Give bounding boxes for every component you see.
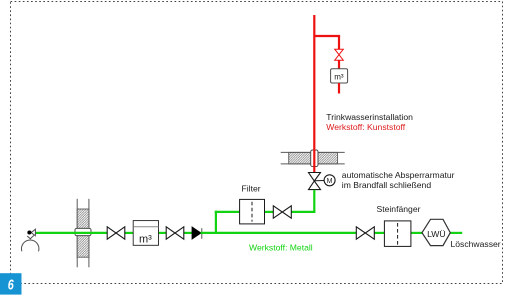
wire: riser to filter: [215, 211, 240, 213]
water meter m3 (branch): [331, 69, 348, 83]
svg-text:LWÜ: LWÜ: [427, 229, 445, 239]
check valve: [192, 227, 202, 239]
valve (after meter): [166, 227, 184, 239]
wire: red branch vertical: [338, 36, 340, 50]
ceiling pipe sleeve: [311, 150, 318, 167]
wire: green drop from motor valve: [313, 190, 315, 213]
svg-text:Löschwasser: Löschwasser: [451, 239, 501, 249]
wire: green valve to check valve: [184, 232, 193, 234]
wall pipe sleeve: [75, 228, 91, 235]
svg-text:Trinkwasserinstallation: Trinkwasserinstallation: [326, 112, 413, 122]
valve (house shutoff): [107, 227, 125, 239]
water meter m3 (main): [133, 221, 158, 246]
svg-text:Werkstoff: Metall: Werkstoff: Metall: [249, 242, 313, 252]
supply connection symbol: [21, 229, 38, 251]
page number tab 6: [0, 273, 22, 294]
valve (red, branch): [335, 49, 344, 60]
wire: red valve to meter: [338, 60, 340, 69]
svg-text:Steinfänger: Steinfänger: [377, 204, 421, 214]
filter F: [240, 199, 265, 224]
svg-text:Werkstoff: Kunststoff: Werkstoff: Kunststoff: [326, 122, 405, 132]
wire: green LWU to end: [450, 232, 462, 234]
wire: green riser: [215, 211, 217, 233]
valve (after filter): [273, 206, 291, 218]
wire: filter to valve: [264, 211, 273, 213]
wire: green long segment: [201, 232, 357, 234]
wire: green filter branch right: [291, 211, 315, 213]
LWU heat exchanger: [422, 219, 450, 245]
valve with motor (automatische Absperrarmatur): [309, 173, 336, 190]
Steinfaenger (dirt trap): [384, 221, 411, 247]
wire: red branch horizontal: [314, 35, 340, 37]
svg-text:im Brandfall schließend: im Brandfall schließend: [342, 180, 432, 190]
ceiling slab hatch: [281, 152, 345, 164]
wire: green meter to valve: [158, 232, 167, 234]
svg-text:m³: m³: [334, 72, 344, 81]
svg-text:automatische Absperrarmatur: automatische Absperrarmatur: [342, 170, 455, 180]
wire: green main line segment 1: [35, 232, 108, 234]
wall hatch (left): [77, 199, 89, 267]
valve (before Steinfaenger): [356, 227, 374, 239]
svg-text:Filter: Filter: [242, 183, 261, 193]
wire: green valve to Steinfaenger: [374, 232, 384, 234]
wire: green Steinfaenger to LWU: [411, 232, 423, 234]
wire: red below meter: [338, 83, 340, 94]
wire: red main riser: [313, 15, 315, 173]
svg-text:6: 6: [8, 276, 15, 293]
wire: green between valve and meter: [124, 232, 134, 234]
svg-text:M: M: [327, 178, 333, 185]
svg-text:m³: m³: [139, 233, 152, 245]
